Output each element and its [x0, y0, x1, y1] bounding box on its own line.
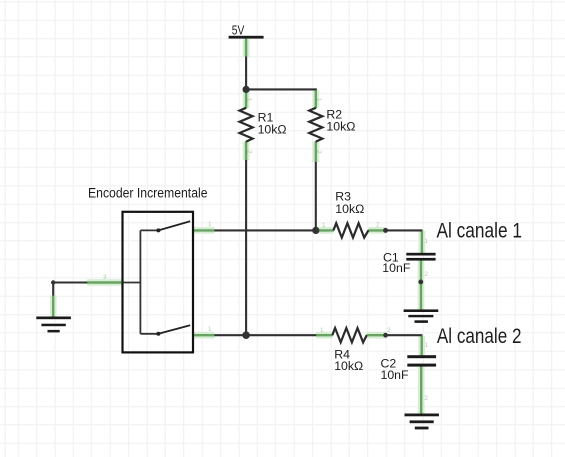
junction canale2 node at R1 — [242, 331, 250, 339]
capacitor C1 pin 1 highlight — [418, 229, 425, 253]
capacitor C2 plate 1 — [407, 355, 436, 358]
svg-text:10nF: 10nF — [382, 261, 411, 275]
wire R1 bottom to canale2 junction — [245, 160, 247, 335]
svg-text:Al canale 2: Al canale 2 — [437, 325, 522, 348]
resistor R1 pin 2 highlight — [243, 141, 250, 160]
svg-text:2: 2 — [376, 222, 380, 229]
encoder U1 left stub — [123, 282, 141, 284]
resistor R3 body — [333, 223, 368, 237]
svg-text:Encoder Incrementale: Encoder Incrementale — [88, 185, 208, 200]
encoder U1 pin B highlight — [193, 332, 215, 339]
junction 5V node — [243, 86, 250, 93]
wire encoder pin A to canale1 junction — [215, 229, 316, 231]
wire encoder pin C to ground corner — [53, 283, 87, 296]
resistor R4 body — [332, 328, 366, 342]
encoder U1 bottom stub — [140, 333, 158, 335]
svg-text:3: 3 — [103, 274, 107, 281]
encoder U1 top contact dot — [156, 228, 160, 232]
encoder U1 bottom contact dot — [156, 332, 160, 336]
resistor R1 body — [240, 108, 253, 142]
capacitor C1 plate 2 — [406, 258, 435, 261]
resistor R3 pin 1 highlight — [315, 227, 334, 234]
wire R4 to C2 corner — [386, 334, 422, 336]
resistor R2 pin 2 highlight — [312, 141, 319, 162]
power symbol 5V bar — [229, 36, 264, 39]
encoder U1 pin C highlight — [87, 279, 124, 286]
encoder U1 top stub — [140, 229, 158, 231]
wire encoder pin B to R4 — [215, 334, 317, 336]
svg-text:10kΩ: 10kΩ — [334, 359, 363, 373]
wire 5V rail to junction — [245, 57, 247, 90]
svg-text:2: 2 — [425, 395, 429, 402]
svg-text:2: 2 — [425, 271, 429, 278]
capacitor C1 pin 2 highlight — [418, 260, 425, 310]
ground GND3 pin highlight — [50, 295, 57, 317]
resistor R1 pin 1 highlight — [243, 90, 250, 108]
wire junction to R2 top corner — [246, 88, 316, 91]
svg-text:1: 1 — [425, 342, 429, 349]
capacitor C2 pin 2 highlight — [418, 366, 425, 414]
svg-text:10kΩ: 10kΩ — [335, 202, 364, 216]
capacitor C1 plate 1 — [406, 253, 435, 256]
resistor R3 pin 2 highlight — [368, 227, 386, 234]
junction R3 right node — [383, 228, 388, 233]
capacitor C2 plate 2 — [407, 364, 436, 367]
svg-text:2: 2 — [315, 150, 322, 154]
junction canale1 node at R2 — [312, 227, 319, 234]
svg-text:1: 1 — [320, 327, 324, 334]
encoder U1 top lever — [158, 221, 190, 230]
svg-text:1: 1 — [246, 98, 253, 102]
svg-text:2: 2 — [387, 327, 391, 334]
svg-text:1: 1 — [322, 222, 326, 229]
encoder U1 common line — [139, 230, 141, 333]
resistor R2 pin 1 highlight — [312, 89, 319, 108]
junction C1 ground wire node — [418, 280, 423, 285]
encoder U1 bottom lever — [158, 325, 190, 334]
capacitor C2 pin 1 highlight — [418, 334, 425, 356]
wire R2 bottom to canale1 junction — [315, 162, 317, 230]
power pin 5V wire highlight — [243, 39, 250, 58]
resistor R2 body — [309, 108, 322, 142]
svg-text:1: 1 — [208, 221, 212, 228]
junction R4 right node — [383, 333, 388, 338]
svg-text:1: 1 — [208, 326, 212, 333]
svg-text:2: 2 — [246, 150, 253, 154]
svg-text:5V: 5V — [232, 23, 245, 38]
svg-text:10nF: 10nF — [381, 368, 410, 382]
resistor R4 pin 1 highlight — [316, 332, 333, 339]
svg-text:1: 1 — [425, 238, 429, 245]
svg-text:1: 1 — [315, 98, 322, 102]
svg-text:10kΩ: 10kΩ — [258, 122, 287, 136]
encoder U1 box — [123, 212, 194, 353]
wire R3 to C1 corner — [386, 229, 422, 231]
encoder U1 pin A highlight — [193, 227, 215, 234]
svg-text:Al canale 1: Al canale 1 — [437, 220, 523, 243]
svg-text:10kΩ: 10kΩ — [326, 120, 355, 134]
junction left ground corner node — [51, 280, 55, 284]
resistor R4 pin 2 highlight — [366, 332, 386, 339]
